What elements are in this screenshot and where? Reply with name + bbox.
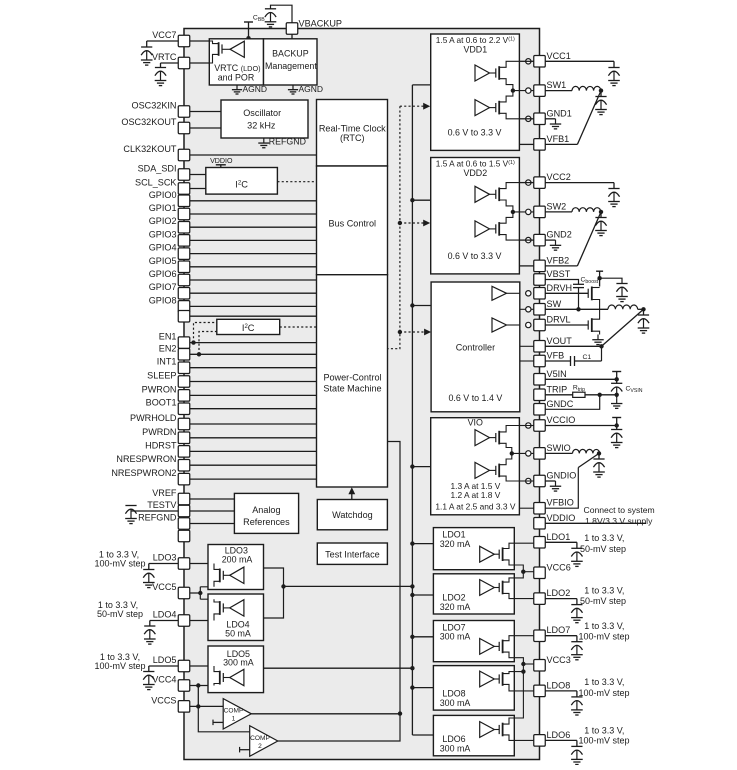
- supply bus tap to LDO7: [412, 636, 433, 638]
- svg-text:LDO4: LDO4: [153, 610, 177, 620]
- supply bus tap to LDO1: [412, 543, 433, 545]
- svg-text:References: References: [243, 517, 290, 527]
- capacitor on VRTC: [161, 62, 179, 64]
- pin (unlabeled): [178, 310, 190, 322]
- block LDO7 300 mA: [433, 621, 514, 662]
- pin VCC4: [178, 680, 190, 692]
- resistor RTRIP: [573, 392, 585, 397]
- svg-text:GND2: GND2: [547, 230, 572, 240]
- pin OSC32KIN: [178, 106, 190, 118]
- VCC1 bubble: [526, 59, 531, 64]
- wire LDO5 output to bus: [264, 667, 413, 669]
- svg-text:1 to 3.3 V,: 1 to 3.3 V,: [584, 621, 624, 631]
- pin INT1: [178, 362, 190, 374]
- pin SLEEP: [178, 376, 190, 388]
- LDO6 source wire: [503, 718, 515, 724]
- input capacitor: [616, 283, 627, 285]
- pin LDO6: [534, 735, 546, 747]
- capacitor on LDO3 output: [149, 563, 178, 565]
- pin LDO5: [178, 660, 190, 672]
- svg-text:VDDIO: VDDIO: [547, 513, 576, 523]
- inductor SWIO: [545, 452, 572, 454]
- wire NRESPWRON to power-control state machine: [190, 464, 317, 466]
- pin LDO1: [534, 537, 546, 549]
- comparator COMP1: [223, 699, 251, 729]
- svg-text:COMP: COMP: [224, 708, 244, 715]
- pin CLK32KOUT: [178, 149, 190, 161]
- wire LDO7 output: [545, 635, 577, 637]
- svg-text:GPIO1: GPIO1: [149, 203, 177, 213]
- wire SW into controller: [520, 308, 534, 310]
- svg-text:300 mA: 300 mA: [223, 658, 254, 668]
- capacitor on LDO8 output: [571, 696, 582, 698]
- pin VFB: [534, 355, 546, 367]
- wire GND1 into VDD1: [519, 118, 534, 120]
- pin SW2: [534, 206, 546, 218]
- junction dot supply node: [597, 276, 601, 280]
- dashed control arrow into VDD1: [400, 105, 425, 107]
- supply bus tap to LDO2: [412, 594, 433, 596]
- wire CLK32KOUT to RTC: [190, 154, 317, 156]
- svg-text:0.6 V to 3.3 V: 0.6 V to 3.3 V: [448, 128, 502, 138]
- ground GND2: [545, 239, 555, 241]
- svg-text:1.5 A at 0.6 to 2.2 V(1): 1.5 A at 0.6 to 2.2 V(1): [436, 35, 515, 45]
- svg-text:1.8V/3.3 V supply: 1.8V/3.3 V supply: [585, 516, 653, 526]
- svg-text:SW: SW: [547, 299, 562, 309]
- wire LDO5 pin into LDO5 block: [190, 665, 214, 667]
- wire GPIO6 to bus control: [190, 279, 317, 281]
- block Bus Control: [317, 166, 388, 275]
- svg-text:100-mV step: 100-mV step: [94, 661, 145, 671]
- pin GNDIO: [534, 475, 546, 487]
- wire LDO2 output: [545, 598, 577, 600]
- LDO6 drain wire to pin: [503, 735, 535, 741]
- wire VCC2 to capacitor: [545, 182, 614, 184]
- pin SCL_SCK: [178, 183, 190, 195]
- pin SW: [534, 304, 546, 316]
- svg-text:VDD2: VDD2: [463, 168, 487, 178]
- wire VFB with C1: [545, 360, 570, 362]
- wire GPIO2 to bus control: [190, 226, 317, 228]
- junction dot SW2 output: [599, 210, 603, 214]
- LDO2 drain wire to pin: [503, 593, 535, 598]
- pin VBACKUP square: [286, 23, 298, 35]
- feedback wire VFB1: [545, 143, 577, 145]
- switch node junction dot VDD2: [511, 210, 515, 214]
- junction dot comparator outputs: [398, 711, 402, 715]
- svg-text:OSC32KOUT: OSC32KOUT: [121, 117, 177, 127]
- svg-text:50 mA: 50 mA: [225, 628, 251, 638]
- junction dot VCC3 node lower: [521, 669, 525, 673]
- wire TRIP with RTRIP: [545, 394, 572, 396]
- pin VFB2: [534, 260, 546, 272]
- high-side FET VDD2: [495, 190, 497, 199]
- pin OSC32KOUT: [178, 122, 190, 134]
- high-side external FET: [587, 289, 589, 298]
- feedback wire VFB2: [545, 265, 577, 267]
- svg-text:NRESPWRON: NRESPWRON: [116, 454, 176, 464]
- capacitor CBB on VBACKUP: [265, 8, 276, 10]
- svg-text:VDD1: VDD1: [463, 45, 487, 55]
- ground low-side FET: [597, 335, 599, 340]
- low-side external FET: [587, 320, 589, 329]
- switch node junction dot VIO: [510, 451, 514, 455]
- capacitor on SW1 output: [600, 91, 602, 97]
- wire GPIO5 to bus control: [190, 266, 317, 268]
- driver amplifier lower VIO: [475, 462, 490, 478]
- svg-text:Test Interface: Test Interface: [325, 549, 380, 559]
- comparator COMP2: [250, 726, 278, 757]
- svg-text:100-mV step: 100-mV step: [579, 736, 630, 746]
- capacitor on VCC2: [608, 188, 619, 190]
- pin VDDIO: [534, 518, 546, 530]
- wire INT1 to power-control state machine: [190, 367, 317, 369]
- pin GPIO0: [178, 195, 190, 207]
- pass FET LDO6: [498, 725, 500, 734]
- pin GPIO1: [178, 208, 190, 220]
- junction dot SW1 output: [599, 88, 603, 92]
- svg-text:TRIP: TRIP: [547, 384, 568, 394]
- svg-text:OSC32KIN: OSC32KIN: [132, 101, 177, 111]
- svg-text:100-mV step: 100-mV step: [579, 632, 630, 642]
- svg-text:LDO6: LDO6: [547, 730, 571, 740]
- svg-text:GPIO8: GPIO8: [149, 295, 177, 305]
- GNDIO bubble: [526, 478, 531, 483]
- junction dot VCC6 node: [521, 570, 525, 574]
- driver amplifier lower VDD2: [475, 221, 490, 237]
- svg-text:GNDIO: GNDIO: [547, 471, 577, 481]
- wire VCC3: [523, 663, 534, 665]
- amplifier LDO2: [480, 580, 495, 596]
- wire SLEEP to power-control state machine: [190, 381, 317, 383]
- block Analog References: [234, 493, 298, 533]
- VDDIO tee on I2C block: [216, 164, 226, 166]
- pin NRESPWRON: [178, 459, 190, 471]
- pin (unlabeled): [178, 530, 190, 542]
- LDO2 source wire: [503, 578, 515, 582]
- junction dot EN1: [191, 340, 195, 344]
- junction dot TRIP/GNDC: [598, 393, 602, 397]
- wire GPIO7 to bus control: [190, 292, 317, 294]
- pin GND2: [534, 234, 546, 246]
- capacitor CVSIN: [611, 382, 622, 384]
- driver amplifier lower VDD1: [475, 100, 490, 116]
- COMP2 reference input: [239, 747, 241, 753]
- junction dot at VRTC block top: [246, 36, 250, 40]
- svg-text:SCL_SCK: SCL_SCK: [135, 178, 176, 188]
- error amplifier in VRTC block: [230, 41, 244, 57]
- junction dots on supply bus: [410, 198, 414, 202]
- junction dot on dashed bus at VDD2 tap: [398, 221, 402, 225]
- svg-text:VCC2: VCC2: [547, 172, 571, 182]
- low-side FET VDD1: [495, 103, 497, 112]
- wire PWRHOLD to power-control state machine: [190, 423, 317, 425]
- svg-text:50-mV step: 50-mV step: [580, 596, 626, 606]
- amplifier LDO4: [230, 600, 244, 616]
- amplifier LDO8: [480, 671, 495, 687]
- svg-text:2: 2: [258, 743, 262, 750]
- wire REFGND to analog references: [190, 523, 235, 525]
- svg-text:Power-Control: Power-Control: [323, 372, 381, 382]
- wire SDA_SDI to I2C: [190, 174, 206, 176]
- wire VRTC pin to VRTC/POR block: [190, 62, 210, 64]
- pin VCC1: [534, 56, 546, 68]
- svg-text:VCC4: VCC4: [152, 675, 176, 685]
- svg-text:Oscillator: Oscillator: [243, 108, 281, 118]
- svg-text:NRESPWRON2: NRESPWRON2: [111, 468, 176, 478]
- block I2C (control interface): [217, 319, 280, 334]
- AGND symbol under backup block: [292, 85, 294, 90]
- wire VBACKUP into backup management: [291, 34, 293, 39]
- block LDO2 320 mA: [433, 574, 514, 614]
- block LDO8 300 mA: [433, 666, 514, 711]
- capacitor on LDO5 output: [149, 665, 178, 667]
- svg-text:SW2: SW2: [547, 201, 567, 211]
- pin V5IN: [534, 374, 546, 386]
- AGND symbol under VRTC block: [236, 85, 238, 90]
- pin VFBIO: [534, 502, 546, 514]
- wire DRVL to low-side FET gate: [545, 324, 588, 326]
- capacitor on LDO6 output: [571, 745, 582, 747]
- ground GND1: [545, 118, 555, 120]
- high-side FET VDD1: [495, 68, 497, 77]
- amplifier LDO7: [480, 639, 495, 655]
- pin VCC7: [178, 35, 190, 47]
- diagonal feedback wire from inductor to VOUT: [602, 309, 644, 346]
- svg-text:VCCS: VCCS: [151, 695, 176, 705]
- pin VCCIO: [534, 420, 546, 432]
- svg-text:VDDIO: VDDIO: [210, 157, 233, 165]
- block Test Interface: [317, 543, 387, 564]
- svg-text:320 mA: 320 mA: [440, 539, 471, 549]
- dashed I2C control bus vertical x=399.9: [387, 106, 400, 349]
- capacitor CBOOST: [573, 283, 584, 285]
- svg-text:GPIO6: GPIO6: [149, 269, 177, 279]
- wire TESTV to analog references: [190, 510, 235, 512]
- wire SW node: [545, 308, 608, 310]
- svg-text:VCC5: VCC5: [152, 582, 176, 592]
- wire VFB into controller: [520, 360, 534, 362]
- wire VFB1 into VDD1: [519, 143, 534, 145]
- pin LDO7: [534, 630, 546, 642]
- GND2 bubble: [526, 237, 531, 242]
- GND1 bubble: [526, 116, 531, 121]
- pin NRESPWRON2: [178, 473, 190, 485]
- wire OSC32KOUT to oscillator: [190, 127, 221, 129]
- svg-text:and POR: and POR: [218, 72, 255, 82]
- switch node wire VIO: [512, 452, 534, 454]
- pin VFB1: [534, 139, 546, 151]
- svg-text:1: 1: [232, 716, 236, 723]
- block LDO5 300 mA: [208, 646, 264, 693]
- svg-text:Connect to system: Connect to system: [584, 505, 655, 515]
- svg-text:1 to 3.3 V,: 1 to 3.3 V,: [584, 677, 624, 687]
- inductor SW2: [545, 211, 572, 213]
- amplifier LDO5: [230, 669, 244, 685]
- wire LDO8 output: [545, 690, 577, 692]
- svg-text:GPIO4: GPIO4: [149, 243, 177, 253]
- dashed control arrow into VDD2: [400, 222, 425, 224]
- svg-text:GPIO5: GPIO5: [149, 256, 177, 266]
- svg-text:Bus Control: Bus Control: [329, 219, 377, 229]
- svg-text:REFGND: REFGND: [138, 513, 177, 523]
- LDO1 source wire to VCC6: [503, 560, 524, 572]
- svg-text:COMP: COMP: [250, 735, 270, 742]
- pin GPIO2: [178, 221, 190, 233]
- svg-text:GPIO2: GPIO2: [149, 216, 177, 226]
- wire VREF to analog references: [190, 498, 235, 500]
- wire VCC6: [523, 571, 534, 573]
- svg-text:LDO7: LDO7: [547, 625, 571, 635]
- svg-text:300 mA: 300 mA: [440, 744, 471, 754]
- block Oscillator 32 kHz: [221, 100, 308, 138]
- svg-text:VFB: VFB: [547, 351, 565, 361]
- capacitor on LDO4 output: [150, 620, 178, 622]
- svg-text:0.6 V to 3.3 V: 0.6 V to 3.3 V: [448, 251, 502, 261]
- pin VRTC: [178, 57, 190, 69]
- wire VCC4 into LDO5 block: [190, 685, 214, 687]
- junction dot EN2: [197, 352, 201, 356]
- junction dot VCCIO: [615, 423, 619, 427]
- pin SDA_SDI: [178, 169, 190, 181]
- wire DRVH to high-side FET gate: [545, 292, 588, 294]
- wire VCCIO to capacitor: [545, 425, 616, 427]
- junction dot on dashed bus at Controller tap: [398, 330, 402, 334]
- LDO7 drain wire to pin: [503, 636, 535, 641]
- svg-text:Management: Management: [265, 61, 317, 71]
- svg-text:1.5 A at 0.6 to 1.5 V(1): 1.5 A at 0.6 to 1.5 V(1): [436, 158, 515, 168]
- svg-text:SW1: SW1: [547, 80, 567, 90]
- wire EN1 to power-control state machine: [190, 342, 317, 344]
- wire VCC5 into LDO3/LDO4 blocks: [190, 587, 214, 599]
- svg-text:EN2: EN2: [159, 343, 177, 353]
- wire VCC7 to VRTC/POR block: [190, 40, 210, 42]
- svg-text:(RTC): (RTC): [340, 133, 365, 143]
- pin GPIO6: [178, 274, 190, 286]
- svg-text:VBACKUP: VBACKUP: [299, 19, 342, 29]
- svg-text:VCC7: VCC7: [152, 30, 176, 40]
- svg-text:State Machine: State Machine: [323, 383, 381, 393]
- svg-text:GND1: GND1: [547, 108, 572, 118]
- capacitor C1: [570, 356, 572, 366]
- block VRTC (LDO) and POR: [209, 39, 263, 85]
- capacitor on VCC7: [147, 40, 179, 42]
- svg-text:I2C: I2C: [235, 179, 248, 189]
- SW bubble: [526, 307, 531, 312]
- pin DRVL: [534, 319, 546, 331]
- svg-text:SDA_SDI: SDA_SDI: [138, 164, 177, 174]
- supply tee into VRTC block: [244, 21, 253, 23]
- supply bus tap to Controller: [412, 305, 431, 307]
- svg-text:SLEEP: SLEEP: [147, 371, 176, 381]
- block LDO4 50 mA: [208, 594, 264, 641]
- pass FET LDO5: [222, 673, 224, 682]
- pass FET LDO1: [498, 550, 500, 559]
- junction dot VCCS: [196, 704, 200, 708]
- block Watchdog: [317, 500, 387, 530]
- svg-text:LDO5: LDO5: [153, 655, 177, 665]
- pass FET LDO2: [498, 583, 500, 592]
- pin EN1: [178, 337, 190, 349]
- wire HDRST to power-control state machine: [190, 450, 317, 452]
- svg-text:VIO: VIO: [468, 417, 483, 427]
- COMP1 output wire: [251, 713, 400, 715]
- wire LDO6 output: [545, 739, 577, 741]
- block VIO: [431, 418, 520, 515]
- svg-text:PWRHOLD: PWRHOLD: [130, 413, 177, 423]
- LDO8 source wire: [503, 672, 515, 674]
- wire PWRON to power-control state machine: [190, 394, 317, 396]
- SW2 bubble: [526, 209, 531, 214]
- wire NRESPWRON2 to power-control state machine: [190, 478, 317, 480]
- LDO1 drain wire to pin: [503, 543, 535, 548]
- pin GNDC: [534, 404, 546, 416]
- pin LDO3: [178, 558, 190, 570]
- REFGND symbol under oscillator: [263, 138, 265, 143]
- junction dot buck output: [641, 307, 645, 311]
- svg-text:VFBIO: VFBIO: [547, 498, 574, 508]
- pin PWRHOLD: [178, 418, 190, 430]
- wire V5IN: [545, 378, 616, 380]
- svg-text:GNDC: GNDC: [547, 399, 574, 409]
- svg-text:VCC6: VCC6: [547, 562, 571, 572]
- svg-text:BOOT1: BOOT1: [146, 398, 177, 408]
- block VDD2: [431, 158, 520, 274]
- capacitor on VCCIO: [611, 429, 622, 431]
- wire from state machine to comparator outputs x=400: [387, 442, 400, 714]
- svg-text:CLK32KOUT: CLK32KOUT: [123, 144, 177, 154]
- svg-text:PWRDN: PWRDN: [142, 427, 176, 437]
- pin VCC5: [178, 587, 190, 599]
- svg-text:V5IN: V5IN: [547, 369, 567, 379]
- wire LDO3/LDO4 outputs to bus: [264, 568, 413, 618]
- wire VCCIO: [519, 425, 534, 427]
- supply tee for external FETs: [596, 270, 603, 272]
- wire GPIO3 to bus control: [190, 239, 317, 241]
- wire VCC2 into VDD2: [519, 182, 534, 184]
- svg-text:BACKUP: BACKUP: [272, 48, 309, 58]
- wire SCL_SCK to I2C: [190, 188, 206, 190]
- svg-text:AGND: AGND: [243, 84, 268, 94]
- pin LDO8: [534, 685, 546, 697]
- junction dot VOUT node: [599, 344, 603, 348]
- driver amplifier DRVL: [492, 318, 507, 332]
- pin GPIO8: [178, 301, 190, 313]
- LDO7 source wire to VCC3: [503, 652, 524, 664]
- pin TESTV: [178, 505, 190, 517]
- wire VOUT sense: [545, 345, 601, 347]
- wire VFBIO into VIO: [519, 507, 534, 509]
- svg-text:VFB1: VFB1: [547, 134, 570, 144]
- wire VCC1 into VDD1: [519, 60, 534, 62]
- block BACKUP Management: [264, 39, 318, 85]
- wire LDO4 pin into LDO4 block: [190, 620, 214, 622]
- driver amplifier DRVH: [492, 286, 507, 300]
- wire VCC1 to capacitor: [545, 60, 614, 62]
- inductor SW1: [545, 90, 572, 92]
- wire GPIO0 to bus control: [190, 200, 317, 202]
- svg-text:TESTV: TESTV: [147, 500, 177, 510]
- switch node junction dot VDD1: [511, 88, 515, 92]
- capacitor on LDO1 output: [571, 547, 582, 549]
- svg-text:VRTC (LDO): VRTC (LDO): [214, 63, 260, 73]
- svg-text:Controller: Controller: [456, 343, 495, 353]
- svg-text:VFB2: VFB2: [547, 255, 570, 265]
- dashed control arrow into Controller: [400, 331, 425, 333]
- wire supply node to input capacitor: [600, 278, 622, 283]
- svg-text:DRVH: DRVH: [547, 283, 573, 293]
- pin DRVH: [534, 288, 546, 300]
